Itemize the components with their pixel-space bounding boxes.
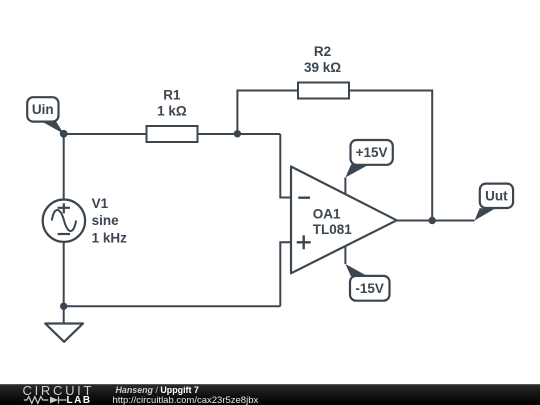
svg-text:TL081: TL081: [313, 222, 353, 237]
svg-text:http://circuitlab.com/cax23r5z: http://circuitlab.com/cax23r5ze8jbx: [113, 395, 259, 405]
svg-text:LAB: LAB: [67, 395, 92, 405]
svg-text:OA1: OA1: [313, 206, 341, 221]
svg-text:1 kΩ: 1 kΩ: [157, 103, 187, 118]
svg-text:Hanseng / Uppgift 7: Hanseng / Uppgift 7: [116, 385, 199, 395]
svg-text:R1: R1: [163, 87, 181, 102]
svg-text:V1: V1: [92, 196, 109, 211]
svg-text:Uin: Uin: [32, 102, 54, 117]
svg-text:39 kΩ: 39 kΩ: [304, 60, 341, 75]
svg-text:1 kHz: 1 kHz: [92, 231, 128, 246]
svg-text:Uut: Uut: [485, 189, 508, 204]
svg-text:R2: R2: [314, 44, 331, 59]
svg-text:sine: sine: [92, 213, 120, 228]
svg-text:+15V: +15V: [356, 145, 388, 160]
svg-text:-15V: -15V: [355, 281, 384, 296]
